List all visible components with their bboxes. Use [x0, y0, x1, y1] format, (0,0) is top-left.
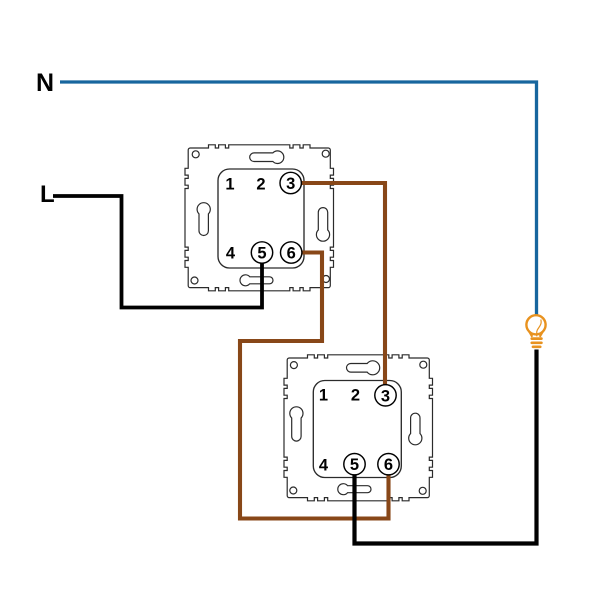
svg-text:6: 6	[287, 245, 296, 263]
svg-text:1: 1	[225, 176, 234, 194]
svg-text:6: 6	[384, 456, 393, 474]
svg-text:4: 4	[226, 245, 236, 263]
svg-text:L: L	[40, 181, 55, 208]
svg-text:5: 5	[257, 245, 266, 263]
svg-text:4: 4	[319, 457, 329, 475]
svg-text:2: 2	[256, 176, 265, 194]
svg-text:1: 1	[319, 387, 328, 405]
svg-text:3: 3	[286, 175, 295, 193]
svg-text:N: N	[36, 69, 54, 97]
svg-text:5: 5	[350, 456, 359, 474]
svg-text:2: 2	[351, 387, 360, 405]
svg-text:3: 3	[381, 387, 390, 405]
